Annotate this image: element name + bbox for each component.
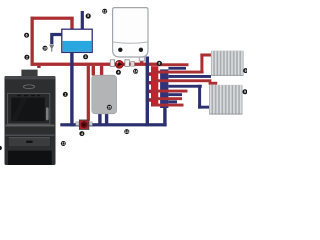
wire: blue riser manifold drain (163, 107, 166, 126)
wire: blue riser boiler return (146, 57, 149, 127)
valve: small gray tick right of valve2 (131, 61, 135, 66)
manifold: red bar left stub 2 (149, 81, 152, 85)
wire: stripe blue 1 short (168, 67, 186, 70)
stove: glass reflection (11, 98, 28, 122)
radiator 2 (209, 85, 243, 115)
wire: stripe red 1 short (158, 63, 188, 66)
valve: white valve left of pump (110, 60, 114, 67)
wire: red branch down left of tank to lower pump (87, 66, 90, 121)
wire: tank bottom port 1 (98, 114, 101, 125)
stove: drawer handle slot (26, 141, 33, 143)
wire: stripe blue 4 short (168, 100, 177, 103)
stove: groove line 1 (6, 125, 55, 127)
svg-text:1: 1 (64, 93, 66, 97)
manifold: red supply bar (151, 66, 158, 105)
node 10 (43, 46, 48, 51)
wire: stripe red 4 short (151, 97, 182, 100)
expansion tank: body (62, 29, 92, 52)
funnel: overflow tundish (49, 45, 54, 52)
svg-text:9: 9 (244, 90, 246, 94)
boiler: wall-hung body (113, 8, 148, 57)
svg-text:5: 5 (87, 14, 89, 18)
stove: drawer (8, 137, 50, 147)
wire: stripe red 5 long bottom (151, 104, 184, 107)
node 9 radiator1 (243, 68, 248, 73)
pump: lower pump flange right (89, 122, 92, 126)
wire: red drop into expansion tank (70, 19, 73, 31)
tank: DHW gray tank (92, 75, 117, 114)
svg-text:2: 2 (26, 55, 28, 59)
stove: door vents (17, 95, 21, 96)
svg-text:10: 10 (43, 46, 47, 50)
valve: drain nub on supply line (37, 66, 40, 68)
wire: blue return radiator2 horizontal (168, 85, 201, 88)
svg-text:12: 12 (103, 9, 107, 13)
node 5 (86, 13, 91, 18)
wire: red feed radiator1 riser (200, 54, 203, 73)
stove: groove line 2 (6, 135, 55, 136)
expansion tank: water (63, 41, 92, 52)
node 12 (102, 9, 107, 14)
svg-text:9: 9 (245, 69, 247, 73)
wire: red port into tank top 1 (92, 66, 95, 76)
node 1 left edge (0, 146, 2, 151)
node 1 (63, 92, 68, 97)
stove: door glass (11, 98, 45, 122)
wire: stripe red 3 short (151, 90, 188, 93)
boiler: knob right (139, 48, 143, 52)
node 15 (107, 105, 112, 110)
wire: blue return radiator2 riser down (198, 85, 201, 109)
manifold: red bar left stub 3 (149, 90, 152, 94)
svg-text:6: 6 (26, 33, 28, 37)
svg-text:3: 3 (85, 55, 87, 59)
stove: door frame (8, 93, 50, 124)
svg-text:11: 11 (62, 142, 66, 146)
node 13 (124, 129, 129, 134)
valve: white valve on boiler drop (139, 57, 144, 61)
node 6 (24, 33, 29, 38)
stove: door handle (46, 107, 49, 120)
wire: blue return radiator1 (168, 75, 211, 78)
pump: upper circulation pump (115, 60, 123, 68)
boiler: panel line (113, 42, 147, 43)
wire: red port into tank top 2 (100, 66, 103, 76)
wire: blue overflow from tank left side (50, 33, 62, 44)
wire: red gravity loop top horizontal (31, 17, 74, 20)
node 11 (61, 141, 66, 146)
wire: long blue return from expansion tank down (70, 52, 73, 126)
node 3 (83, 54, 88, 59)
wire: red riser from stove, left vertical (31, 17, 34, 65)
node 2 (24, 55, 29, 60)
wire: bottom return horizontal (60, 123, 166, 126)
valve: white valve right of pump (125, 60, 129, 67)
pump: lower pump body (79, 120, 88, 129)
svg-text:14: 14 (134, 70, 138, 74)
stove: badge oval (23, 85, 34, 89)
svg-text:15: 15 (107, 106, 111, 110)
stove: top bevel (5, 76, 56, 79)
stove: bottom compartment (8, 151, 52, 165)
boiler: knob left (118, 48, 122, 52)
svg-text:8: 8 (158, 62, 160, 66)
node 14 (133, 69, 138, 74)
wire: red feed radiator1 top run (200, 54, 211, 57)
wire: stripe blue 3 short (168, 93, 182, 96)
wire: red boiler supply drop (140, 57, 143, 64)
pump: lower pump flange left (76, 122, 79, 126)
wire: tank bottom port 2 (105, 114, 108, 125)
node 4 (116, 70, 121, 75)
wire: blue return radiator2 bottom run (198, 106, 209, 109)
stove: body (5, 76, 56, 165)
node 4b (79, 131, 84, 136)
svg-text:13: 13 (125, 130, 129, 134)
svg-text:4: 4 (81, 132, 83, 136)
node 9 radiator2 (243, 89, 248, 94)
radiator 1 (211, 51, 244, 76)
manifold: red bar left stub 4 (149, 98, 152, 102)
manifold: blue return bar (160, 69, 168, 108)
wire: blue vent pipe on expansion tank (81, 11, 84, 30)
wire: red boiler/pump supply line horizontal (31, 63, 159, 66)
wire: red feed radiator2 over top edge (151, 79, 211, 82)
manifold: red bar left stub 1 (149, 72, 152, 76)
wire: red feed radiator1 horizontal (151, 71, 204, 74)
stove: flue collar (21, 70, 37, 77)
node 8 (157, 61, 162, 66)
svg-text:4: 4 (117, 71, 119, 75)
